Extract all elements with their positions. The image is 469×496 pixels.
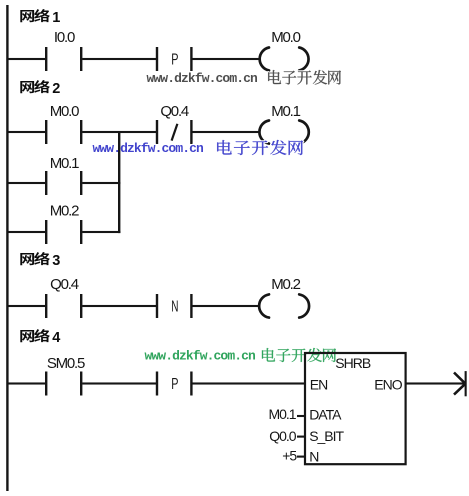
contact M0.1 (NO) parallel branch [45, 155, 82, 195]
contact I0.0 (NO) [45, 29, 82, 71]
svg-text:N: N [171, 299, 178, 316]
svg-text:2: 2 [52, 81, 60, 97]
svg-text:Q0.4: Q0.4 [160, 103, 189, 120]
svg-text:M0.0: M0.0 [50, 103, 79, 120]
contact P positive-edge rung4 [156, 372, 193, 396]
svg-text:M0.2: M0.2 [271, 276, 300, 293]
left power rail [6, 5, 8, 491]
wire rung2 M0.0 to contact Q0.4 through branch junction [82, 131, 156, 133]
coil M0.2 [259, 276, 309, 318]
wire rung4 SM0.5 to P contact [82, 382, 156, 384]
svg-text:EN: EN [310, 377, 327, 393]
function block U1 SHRB shift register [305, 353, 406, 464]
svg-text:www.dzkfw.com.cn: www.dzkfw.com.cn [93, 141, 205, 156]
svg-text:www.dzkfw.com.cn: www.dzkfw.com.cn [147, 71, 259, 86]
svg-text:+5: +5 [282, 447, 297, 463]
svg-text:4: 4 [52, 330, 60, 346]
contact M0.2 (NO) parallel branch [45, 203, 82, 245]
svg-text:Q0.0: Q0.0 [269, 428, 297, 444]
wire rung3 N to coil M0.2 [192, 305, 260, 307]
wire rung2 Q0.4 to coil M0.1 [192, 131, 260, 133]
svg-text:M0.1: M0.1 [268, 406, 296, 422]
wire branch M0.2 from rail [8, 231, 45, 233]
svg-text:Q0.4: Q0.4 [50, 276, 79, 293]
pin DATA with value M0.1 [268, 406, 342, 423]
coil M0.1 [259, 103, 308, 144]
svg-text:I0.0: I0.0 [54, 29, 75, 46]
contact Q0.4 (NO) rung3 [45, 276, 82, 318]
wire branch M0.2 to junction [82, 231, 120, 233]
wire rung2 rail to contact M0.0 [8, 131, 45, 133]
svg-text:P: P [171, 52, 178, 69]
svg-text:P: P [171, 376, 178, 393]
network 3 label [20, 252, 60, 269]
svg-text:SM0.5: SM0.5 [47, 355, 85, 372]
svg-text:SHRB: SHRB [335, 355, 371, 371]
svg-text:www.dzkfw.com.cn: www.dzkfw.com.cn [145, 348, 257, 363]
network 2 label [20, 80, 60, 97]
wire rung4 rail to contact SM0.5 [8, 382, 45, 384]
wire rung1 rail to contact I0.0 [8, 58, 45, 60]
wire branch M0.1 to junction [82, 182, 120, 184]
svg-text:1: 1 [52, 10, 60, 26]
watermark 1 www.dzkfw.com.cn 电子开发网 [147, 70, 342, 86]
wire rung3 Q0.4 to N contact [82, 305, 156, 307]
wire rung1 I0.0 to P contact [82, 58, 156, 60]
wire rung3 rail to contact Q0.4 [8, 305, 45, 307]
watermark 2 www.dzkfw.com.cn 电子开发网 [93, 140, 304, 156]
svg-text:DATA: DATA [309, 407, 342, 423]
svg-text:N: N [309, 448, 318, 464]
watermark 3 www.dzkfw.com.cn 电子开发网 [145, 348, 337, 363]
svg-text:3: 3 [52, 253, 60, 269]
pin N with value +5 [282, 447, 318, 464]
contact N negative-edge rung3 [156, 294, 193, 318]
contact SM0.5 (NO) [45, 355, 85, 396]
network 4 label [20, 329, 60, 346]
svg-text:ENO: ENO [374, 377, 402, 393]
svg-text:M0.0: M0.0 [271, 29, 300, 46]
contact P positive-edge rung1 [156, 47, 193, 71]
contact Q0.4 (NC) rung2 [156, 103, 193, 144]
coil M0.0 [260, 29, 309, 71]
svg-text:M0.1: M0.1 [271, 103, 300, 120]
contact M0.0 (NO) [45, 103, 82, 144]
svg-text:S_BIT: S_BIT [309, 428, 344, 444]
wire branch M0.1 from rail [8, 182, 45, 184]
svg-text:M0.1: M0.1 [50, 155, 79, 172]
wire rung4 P to SHRB block EN input [192, 382, 305, 384]
wire rung1 P to coil M0.0 [192, 58, 260, 60]
arrow to continuation [454, 371, 467, 396]
network 1 label [20, 9, 60, 26]
pin S_BIT with value Q0.0 [269, 428, 344, 444]
wire ENO output [406, 382, 464, 384]
svg-text:M0.2: M0.2 [50, 203, 79, 220]
branch junction vertical wire [118, 131, 120, 233]
